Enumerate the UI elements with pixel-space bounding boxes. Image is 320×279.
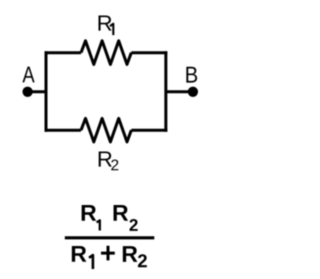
- label: resistor R2 designator: [99, 151, 112, 166]
- wire: top-left segment (left vertical to R1): [45, 51, 82, 54]
- formula numerator: R1 symbol: [82, 205, 97, 221]
- wire: bottom-left segment (left vertical to R2): [45, 129, 82, 132]
- formula numerator: subscript 2: [129, 219, 137, 231]
- formula numerator: R2 symbol: [114, 205, 129, 221]
- label: resistor R2 subscript 2: [111, 159, 118, 170]
- node B terminal dot: [188, 87, 198, 97]
- label: node B: [186, 67, 197, 83]
- wire: left vertical branch: [45, 51, 48, 132]
- formula fraction bar: [65, 236, 155, 239]
- label: node A: [22, 67, 34, 83]
- resistor R2 (bottom branch zigzag): [81, 118, 131, 141]
- formula denominator: subscript 2: [138, 254, 147, 267]
- wire: stub from right vertical to node B: [166, 90, 193, 93]
- formula denominator: R2 symbol: [123, 246, 138, 262]
- formula denominator: plus sign: [101, 246, 115, 261]
- node A terminal dot: [22, 87, 32, 97]
- resistor R1 (top branch zigzag): [81, 41, 131, 65]
- formula denominator: subscript 1: [89, 255, 93, 269]
- wire: right vertical branch: [164, 51, 167, 132]
- wire: bottom-right segment (R2 to right vertical): [131, 129, 167, 132]
- wire: stub from node A to left vertical: [28, 90, 45, 93]
- formula denominator: R1 symbol: [72, 246, 87, 262]
- formula numerator: subscript 1: [97, 220, 100, 230]
- label: resistor R1 designator: [99, 15, 112, 30]
- wire: top-right segment (R1 to right vertical): [131, 51, 167, 54]
- label: resistor R1 subscript 1: [110, 24, 113, 35]
